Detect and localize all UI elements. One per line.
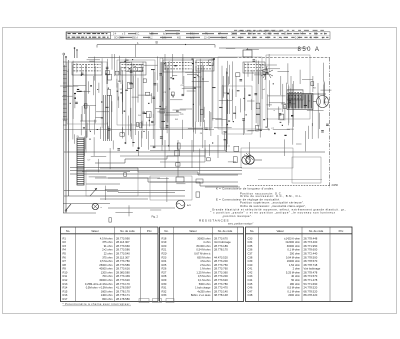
svg-text:2000 ohm: 2000 ohm (288, 293, 301, 297)
svg-text:850 A: 850 A (132, 36, 138, 39)
svg-text:C33: C33 (248, 236, 253, 240)
svg-text:700 ohm: 700 ohm (102, 274, 113, 278)
dial motor M (242, 153, 262, 164)
svg-text:68.778.520: 68.778.520 (304, 289, 318, 293)
svg-text:RESISTANCES: RESISTANCES (199, 219, 229, 223)
svg-text:53.771.690: 53.771.690 (304, 282, 318, 286)
svg-text:40 ohm: 40 ohm (291, 274, 301, 278)
svg-text:28.778.500: 28.778.500 (304, 255, 318, 259)
svg-text:Fig. 2: Fig. 2 (152, 215, 159, 219)
wire AVC bus (64, 151, 326, 153)
bus label B (156, 41, 159, 45)
aerial coil lead (67, 60, 69, 196)
svg-text:28.773.670: 28.773.670 (214, 236, 228, 240)
svg-text:30000 ohm: 30000 ohm (99, 278, 113, 282)
svg-text:C34: C34 (248, 240, 253, 244)
svg-text:„position musique”.: „position musique”. (222, 214, 252, 218)
legend text (212, 187, 346, 218)
antenna lead (63, 55, 65, 213)
svg-text:R11: R11 (63, 274, 68, 278)
svg-text:30000 ohm: 30000 ohm (287, 244, 301, 248)
svg-text:80.000 ohm: 80.000 ohm (197, 244, 212, 248)
chassis boundary dash-dot (329, 58, 331, 189)
waveband switch ladder (77, 138, 84, 185)
svg-text:R19: R19 (162, 240, 167, 244)
wire dial cord line (97, 45, 215, 48)
pilot lamp LA (92, 203, 98, 209)
svg-text:No.: No. (250, 229, 254, 233)
svg-text:R29: R29 (162, 278, 167, 282)
table heading note (228, 223, 253, 226)
svg-text:28.773.200: 28.773.200 (214, 274, 228, 278)
svg-text:Prix: Prix (339, 229, 344, 233)
svg-text:R17: R17 (63, 297, 68, 301)
svg-text:28.773.780: 28.773.780 (116, 259, 130, 263)
svg-text:* Potentiomètre à chaîne avec: * Potentiomètre à chaîne avec interrupte… (63, 302, 131, 306)
fig label (152, 215, 159, 219)
svg-text:28.773.586: 28.773.586 (116, 263, 130, 267)
svg-text:28.773.189: 28.773.189 (214, 244, 228, 248)
svg-text:30000 ohm: 30000 ohm (197, 236, 211, 240)
svg-text:2 ohm: 2 ohm (293, 267, 301, 271)
svg-text:40000 ohm: 40000 ohm (99, 267, 113, 271)
svg-text:No.: No. (164, 229, 168, 233)
svg-text:28.778.170: 28.778.170 (214, 248, 228, 252)
page ref (332, 183, 339, 187)
svg-text:VERD. No 123 SPOEL 4 KAS: VERD. No 123 SPOEL 4 KAST 77 2x14 S-4 (238, 29, 281, 32)
svg-text:R8: R8 (63, 263, 67, 267)
svg-text:650 M-ohm: 650 M-ohm (197, 255, 211, 259)
svg-text:180 ohm: 180 ohm (290, 282, 301, 286)
svg-text:R31: R31 (162, 286, 167, 290)
svg-text:22 ohm: 22 ohm (104, 252, 114, 256)
svg-text:0,1 M-ohm: 0,1 M-ohm (198, 278, 211, 282)
svg-text:C36: C36 (248, 248, 253, 252)
svg-text:R32: R32 (162, 289, 167, 293)
wire ground bus (64, 190, 186, 192)
svg-text:R28: R28 (162, 274, 167, 278)
earth lead (65, 58, 67, 213)
svg-text:0,67 M-ohm ±: 0,67 M-ohm ± (194, 252, 211, 256)
svg-text:4,5 M-ohm: 4,5 M-ohm (100, 236, 113, 240)
svg-text:C35: C35 (248, 244, 253, 248)
antenna terminal (63, 53, 65, 55)
svg-text:R23: R23 (162, 255, 167, 259)
svg-text:No. de code: No. de code (120, 229, 135, 233)
svg-text:±12000 ohm: ±12000 ohm (285, 240, 300, 244)
svg-text:R20: R20 (162, 244, 167, 248)
wire bottom dashed link (247, 185, 330, 187)
svg-text:0,5 M-ohm: 0,5 M-ohm (198, 274, 211, 278)
svg-text:R10: R10 (63, 270, 68, 274)
svg-text:28.778.448: 28.778.448 (304, 236, 318, 240)
svg-text:1 bob charge: 1 bob charge (195, 286, 211, 290)
svg-text:50 ohm: 50 ohm (291, 278, 301, 282)
svg-text:25000 ohm: 25000 ohm (99, 263, 113, 267)
svg-text:28.773.990: 28.773.990 (116, 236, 130, 240)
svg-text:28.773.620: 28.773.620 (214, 278, 228, 282)
svg-text:28.773.170: 28.773.170 (116, 282, 130, 286)
svg-text:28.773.780: 28.773.780 (214, 282, 228, 286)
table heading RESISTANCES (199, 219, 229, 223)
svg-text:28.773.660: 28.773.660 (116, 244, 130, 248)
svg-text:28.774.570: 28.774.570 (304, 274, 318, 278)
svg-text:Voir bobinage: Voir bobinage (214, 240, 231, 244)
svg-text:C39: C39 (248, 259, 253, 263)
svg-text:R15: R15 (63, 289, 68, 293)
dial lamp burst (261, 66, 273, 80)
svg-text:SCHEMA: SCHEMA (114, 36, 124, 39)
svg-text:C48: C48 (248, 293, 253, 297)
svg-text:200 ohm: 200 ohm (290, 252, 301, 256)
svg-text:R33: R33 (162, 293, 167, 297)
svg-text:0,54 M-ohm: 0,54 M-ohm (196, 248, 211, 252)
svg-text:C46: C46 (248, 286, 253, 290)
svg-text:28.773.470: 28.773.470 (214, 286, 228, 290)
svg-text:850 A: 850 A (298, 47, 321, 53)
svg-text:28.773.620: 28.773.620 (116, 278, 130, 282)
svg-text:28.771.950: 28.771.950 (304, 244, 318, 248)
svg-text:±1423 K-ohm: ±1423 K-ohm (284, 236, 301, 240)
svg-text:No. de code: No. de code (218, 229, 233, 233)
svg-text:R27: R27 (162, 270, 167, 274)
svg-text:28.773.540: 28.773.540 (116, 252, 130, 256)
svg-text:R18: R18 (162, 236, 167, 240)
svg-text:R26: R26 (162, 267, 167, 271)
svg-text:12-43: 12-43 (204, 37, 211, 39)
svg-text:41.278.590*: 41.278.590* (116, 286, 132, 290)
svg-text:38.778.148: 38.778.148 (214, 293, 228, 297)
svg-text:28.778.478: 28.778.478 (304, 270, 318, 274)
svg-text:C40: C40 (248, 263, 253, 267)
svg-text:No.: No. (66, 229, 70, 233)
svg-text:28.083.580: 28.083.580 (116, 270, 130, 274)
rectifier tube AZ1 (176, 200, 185, 209)
title block (66, 29, 330, 45)
svg-text:C45: C45 (248, 282, 253, 286)
svg-text:375 ohm: 375 ohm (102, 255, 113, 259)
svg-text:28.771.478: 28.771.478 (304, 278, 318, 282)
svg-text:28.773.616: 28.773.616 (116, 267, 130, 271)
wire HT return bus (70, 173, 242, 175)
svg-text:2/250: 2/250 (332, 183, 339, 187)
svg-text:28.773.140: 28.773.140 (214, 289, 228, 293)
svg-text:R4: R4 (63, 248, 67, 252)
mains switch S1 (65, 204, 71, 211)
wire top HT bus (219, 47, 308, 49)
svg-text:Valeur: Valeur (276, 229, 284, 233)
svg-text:R1: R1 (63, 236, 67, 240)
svg-text:28.778.170: 28.778.170 (116, 289, 130, 293)
output transformer T1 (287, 94, 326, 110)
svg-text:28.778.171: 28.778.171 (116, 293, 130, 297)
svg-text:K = Commutateur de longueur: K = Commutateur de longueur d’ondes. (216, 187, 274, 191)
svg-text:R3: R3 (63, 244, 67, 248)
magic eye box (243, 48, 252, 57)
table footnote (63, 302, 132, 306)
svg-text:0,04 M-ohm: 0,04 M-ohm (286, 255, 301, 259)
svg-text:C43: C43 (248, 274, 253, 278)
svg-text:R25: R25 (162, 263, 167, 267)
svg-text:28.773.360: 28.773.360 (214, 270, 228, 274)
svg-text:1,52 ohm: 1,52 ohm (289, 263, 301, 267)
svg-text:0,5 M-ohm: 0,5 M-ohm (100, 259, 113, 263)
model label 850 A (298, 47, 321, 53)
svg-text:4 ohm: 4 ohm (203, 240, 211, 244)
svg-text:375 ohm: 375 ohm (102, 240, 113, 244)
svg-text:1600 ohm: 1600 ohm (101, 289, 114, 293)
svg-text:91 ohm: 91 ohm (104, 244, 114, 248)
wire heater bus 1 (70, 167, 242, 169)
svg-text:Voir bobinage: Voir bobinage (304, 267, 321, 271)
svg-text:88.278.420: 88.278.420 (304, 293, 318, 297)
svg-text:avec „position musique”: avec „position musique” (228, 223, 253, 226)
svg-text:R7: R7 (63, 259, 67, 263)
svg-text:28.773.586: 28.773.586 (116, 248, 130, 252)
loudspeaker LS (313, 96, 329, 108)
wire heater bus 2 (70, 170, 242, 172)
svg-text:16000 ohm: 16000 ohm (287, 259, 301, 263)
svg-text:C47: C47 (248, 289, 253, 293)
svg-text:Ordre de succession: „musicali: Ordre de succession: „musicalité claire-… (240, 204, 306, 208)
wire mains bus (64, 195, 186, 197)
spare remark boxes (139, 299, 174, 303)
svg-text:0,5M-ohm + 0,5M-ohm: 0,5M-ohm + 0,5M-ohm (86, 286, 114, 290)
svg-text:R30: R30 (162, 282, 167, 286)
svg-text:C42: C42 (248, 270, 253, 274)
svg-text:4 M-ohm: 4 M-ohm (200, 259, 211, 263)
svg-text:1200 ohm: 1200 ohm (101, 270, 114, 274)
svg-text:R12: R12 (63, 278, 68, 282)
svg-text:28.773.439: 28.773.439 (116, 274, 130, 278)
svg-text:Bobin. 2 en dess: Bobin. 2 en dess (191, 293, 211, 297)
svg-text:44.473.520: 44.473.520 (214, 255, 228, 259)
svg-text:R9: R9 (63, 267, 67, 271)
stage enclosure boxes (67, 55, 321, 200)
svg-text:28.773.750: 28.773.750 (214, 263, 228, 267)
svg-text:0,1 M-ohm: 0,1 M-ohm (287, 248, 300, 252)
svg-text:28.778.718: 28.778.718 (304, 263, 318, 267)
svg-text:28.773.400: 28.773.400 (304, 240, 318, 244)
potentiometer arrow (90, 188, 97, 196)
svg-text:Valeur: Valeur (91, 229, 99, 233)
svg-text:R21: R21 (162, 248, 167, 252)
svg-text:Ser. B: Ser. B (221, 36, 228, 39)
svg-text:No. de code: No. de code (309, 229, 324, 233)
svg-text:C37: C37 (248, 252, 253, 256)
svg-text:820 ohm: 820 ohm (102, 297, 113, 301)
svg-text:Valeur: Valeur (189, 229, 197, 233)
svg-text:2×2 ohm: 2×2 ohm (102, 248, 113, 252)
svg-text:R16: R16 (63, 293, 68, 297)
svg-text:5,25 M-ohm: 5,25 M-ohm (286, 270, 301, 274)
svg-text:R2: R2 (63, 240, 67, 244)
svg-text:28.778.570: 28.778.570 (304, 259, 318, 263)
svg-text:C41: C41 (248, 267, 253, 271)
svg-text:28.113.307: 28.113.307 (116, 240, 130, 244)
svg-text:R24: R24 (162, 259, 167, 263)
svg-text:R13: R13 (63, 282, 68, 286)
aerial coil ticks (63, 62, 67, 125)
svg-text:0,1 M-ohm: 0,1 M-ohm (287, 289, 300, 293)
svg-text:28.778.600: 28.778.600 (304, 248, 318, 252)
svg-text:R5: R5 (63, 252, 67, 256)
svg-text:C44: C44 (248, 278, 253, 282)
parts table (61, 227, 353, 302)
svg-text:1400 ohm: 1400 ohm (101, 293, 114, 297)
svg-text:28.772.440: 28.772.440 (304, 252, 318, 256)
svg-text:4x250 ohm: 4x250 ohm (197, 289, 211, 293)
svg-text:R14: R14 (63, 286, 68, 290)
svg-text:R22¹: R22¹ (162, 252, 168, 256)
svg-text:C38: C38 (248, 255, 253, 259)
svg-text:28.773.760: 28.773.760 (214, 267, 228, 271)
svg-text:1,25 M-ohm: 1,25 M-ohm (196, 270, 211, 274)
svg-text:Prix: Prix (147, 229, 152, 233)
svg-text:5000 ohm: 5000 ohm (199, 282, 212, 286)
svg-text:0,5 M-ohm: 0,5 M-ohm (287, 286, 300, 290)
svg-text:x S: x S (122, 34, 126, 36)
svg-text:24.778.520: 24.778.520 (304, 286, 318, 290)
svg-text:2 M-ohm: 2 M-ohm (200, 263, 211, 267)
svg-text:0,25M-ohm+2×1M-ohm: 0,25M-ohm+2×1M-ohm (85, 282, 113, 286)
svg-text:28.773.200: 28.773.200 (214, 259, 228, 263)
earth terminal (65, 56, 67, 58)
wire second bus (88, 57, 330, 59)
svg-text:28.113.307: 28.113.307 (116, 255, 130, 259)
schematic stage wiring mesh (60, 44, 332, 222)
terminal strip (258, 179, 322, 181)
svg-text:28.178.580: 28.178.580 (116, 297, 130, 301)
svg-text:1 M-ohm: 1 M-ohm (200, 267, 211, 271)
svg-text:R6: R6 (63, 255, 67, 259)
